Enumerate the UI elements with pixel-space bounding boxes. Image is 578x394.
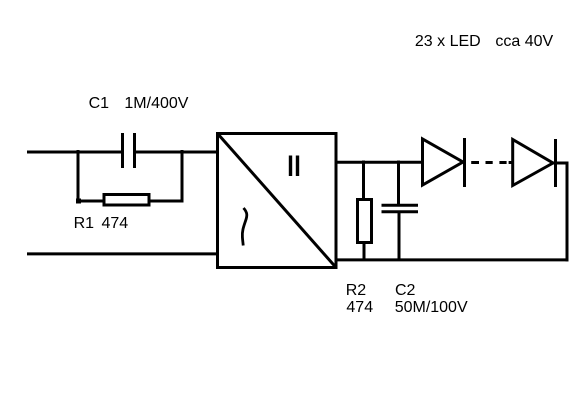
diode D2 cathode bar <box>554 139 557 187</box>
value label 1M/400V <box>124 96 188 112</box>
wire D2 anode stub <box>509 161 514 164</box>
wire C2 bottom lead <box>398 211 401 261</box>
capacitor C2 top plate <box>382 204 419 207</box>
label cca 40V <box>495 34 553 50</box>
diode D1 cathode bar <box>463 138 466 187</box>
wire D2 cathode to right corner <box>553 162 569 165</box>
wire dashed segment 1 <box>471 161 479 164</box>
wire R1 right lead <box>149 200 184 203</box>
value label 474 (R2) <box>346 300 373 316</box>
label R2 <box>346 283 366 299</box>
wire bottom-right return line <box>336 258 569 261</box>
converter U1 DC symbol bar 2 <box>296 156 299 177</box>
capacitor C1 <box>123 133 135 168</box>
wire dashed segment 3 <box>499 161 506 164</box>
label C2 <box>395 283 415 299</box>
wire top-left AC line (right of C1) <box>135 151 218 154</box>
wire R1 branch left vertical <box>77 150 80 203</box>
resistor R1 <box>104 195 149 206</box>
capacitor C2 bottom plate <box>382 210 419 213</box>
wire top-right DC line <box>336 161 424 164</box>
label 23 x LED <box>415 34 481 50</box>
wire right vertical return <box>566 162 569 262</box>
wire top-left AC line <box>27 151 123 154</box>
label C1 <box>89 96 109 112</box>
label R1 <box>74 216 94 232</box>
value label 474 <box>102 216 129 232</box>
converter U1 DC symbol bar 1 <box>289 156 292 177</box>
wire dashed segment 2 <box>486 161 493 164</box>
diode D2 (LED string) <box>513 140 553 186</box>
wire R1 branch right vertical <box>181 150 184 203</box>
diode D1 (LED string) <box>423 139 464 185</box>
converter U1 AC squiggle <box>242 208 246 246</box>
wire bottom-left AC line <box>27 252 218 255</box>
converter U1 box <box>218 134 337 268</box>
resistor R2 <box>358 200 372 243</box>
value label 50M/100V <box>395 300 468 316</box>
wire R1 left lead <box>77 200 105 203</box>
wire R2 bottom lead <box>363 243 366 262</box>
converter U1 diagonal <box>218 134 337 268</box>
wire C2 top lead <box>397 161 400 207</box>
node A junction dot <box>76 199 81 204</box>
wire R2 top lead <box>362 161 365 200</box>
